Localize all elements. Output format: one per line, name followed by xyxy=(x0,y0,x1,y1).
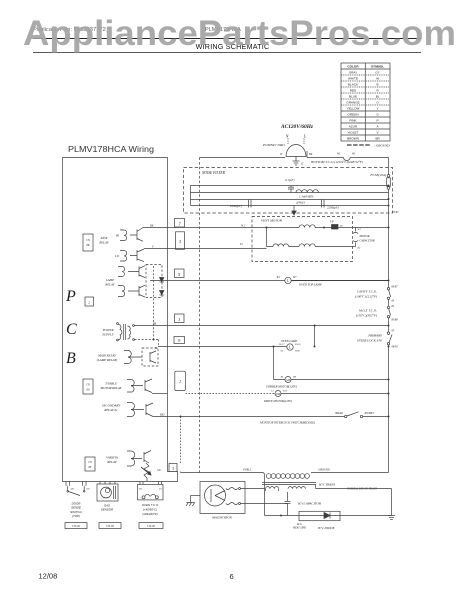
svg-text:MONITOR INTERLOCK SWITCH(MIDDL: MONITOR INTERLOCK SWITCH(MIDDLE) xyxy=(259,421,315,425)
svg-text:BK: BK xyxy=(150,225,154,228)
svg-text:G: G xyxy=(376,113,379,117)
svg-text:(TOP): (TOP) xyxy=(72,514,80,518)
svg-text:INTER LOCK S/W: INTER LOCK S/W xyxy=(356,338,382,342)
svg-text:8Y: 8Y xyxy=(89,466,92,469)
secondary relay 1 RY5 label xyxy=(102,404,121,413)
node dot power wire xyxy=(388,325,390,327)
relay coil varistor xyxy=(127,451,135,466)
svg-text:T.P: T.P xyxy=(330,221,334,224)
svg-text:L: L xyxy=(286,279,289,283)
svg-text:B: B xyxy=(377,83,379,87)
wire NF fourth xyxy=(191,205,389,207)
svg-text:YELLOW: YELLOW xyxy=(347,107,360,111)
svg-text:L: L xyxy=(303,134,307,139)
svg-text:W.1: W.1 xyxy=(241,225,246,228)
wire NF top xyxy=(191,185,389,187)
ground legend xyxy=(347,144,390,148)
MGT TCO S2 xyxy=(356,305,398,322)
svg-text:2200(pF): 2200(pF) xyxy=(327,206,339,210)
color symbol table xyxy=(341,63,390,141)
relay coil sec xyxy=(127,403,135,417)
connector box 9 xyxy=(174,337,185,344)
fuse F1 20A xyxy=(369,158,390,190)
svg-text:BROWN: BROWN xyxy=(347,137,359,141)
wire drop to oven lamp xyxy=(314,325,316,348)
svg-text:2(96)/1: 2(96)/1 xyxy=(296,200,306,204)
wire long dashed neutral drop xyxy=(199,158,201,473)
svg-text:25/17: 25/17 xyxy=(279,343,285,346)
svg-text:0.1(uF): 0.1(uF) xyxy=(285,178,294,182)
svg-text:W: W xyxy=(376,77,379,81)
svg-text:ASSY: ASSY xyxy=(100,236,109,240)
motor capacitor C4 xyxy=(353,228,375,250)
svg-text:POWER: POWER xyxy=(102,328,114,332)
power supply transformer T1 xyxy=(102,328,115,337)
wire dashed internal bus xyxy=(153,266,155,340)
wire lamp relay to box 5 xyxy=(150,280,285,282)
svg-text:PRIMARY: PRIMARY xyxy=(367,333,383,337)
svg-text:1: 1 xyxy=(179,379,181,384)
header publication text xyxy=(33,27,241,33)
connector CN 8Y xyxy=(85,457,95,471)
svg-text:6: 6 xyxy=(230,572,234,581)
stirrer motor M2 xyxy=(266,376,389,389)
transistor Q5 xyxy=(131,451,151,464)
svg-text:BR/AD: BR/AD xyxy=(335,412,343,415)
svg-text:84: 84 xyxy=(392,305,395,308)
svg-text:98/50: 98/50 xyxy=(392,345,399,348)
wire NF left bus xyxy=(190,186,192,206)
door sense switch S5 xyxy=(66,481,90,495)
vent motor winding lower xyxy=(240,228,356,247)
svg-text:COLOR: COLOR xyxy=(347,65,359,69)
header rule top xyxy=(33,38,421,40)
wire HV primary top xyxy=(311,472,389,474)
primary interlock switch S3 xyxy=(356,329,398,348)
svg-text:O: O xyxy=(376,101,379,105)
wire monitor vertical to CN3 xyxy=(180,416,182,473)
svg-text:MOTOR RELAY: MOTOR RELAY xyxy=(100,386,123,390)
wire HV bottom bus xyxy=(265,515,300,517)
svg-text:W1: W1 xyxy=(352,153,356,156)
relay coil ttm xyxy=(127,380,134,393)
svg-text:12/08: 12/08 xyxy=(39,572,58,581)
ground HV xyxy=(388,516,395,520)
wire main relay to box 9 xyxy=(158,346,287,348)
svg-text:W1: W1 xyxy=(277,276,281,279)
connector CN 6A xyxy=(83,379,93,394)
svg-text:BK2: BK2 xyxy=(160,414,165,417)
wire NF second xyxy=(191,192,389,194)
inductor L1 1.3uH xyxy=(296,190,318,199)
oven lamp LP2 xyxy=(279,339,301,353)
wire ttm output xyxy=(152,393,168,395)
svg-text:AZUR: AZUR xyxy=(349,125,358,129)
lamp relay switch block xyxy=(128,265,162,298)
svg-text:1: 1 xyxy=(178,317,180,322)
svg-text:12: 12 xyxy=(271,390,274,393)
wire power supply return dashed xyxy=(134,339,158,351)
svg-text:W1: W1 xyxy=(337,153,341,156)
svg-text:BR: BR xyxy=(375,137,380,141)
wire HI output xyxy=(143,225,267,228)
svg-text:M.G.T T.C.O.: M.G.T T.C.O. xyxy=(358,308,377,312)
assy relay RY1 label xyxy=(98,236,109,245)
svg-text:HI: HI xyxy=(115,234,120,238)
svg-text:2200(pF): 2200(pF) xyxy=(230,204,242,208)
connector CN-02 tco xyxy=(139,523,163,529)
svg-text:FUSE(20A): FUSE(20A) xyxy=(369,173,386,177)
svg-text:H.V. DIODE: H.V. DIODE xyxy=(317,526,335,530)
ground G below plug xyxy=(293,156,305,166)
svg-text:NOISE FILTER: NOISE FILTER xyxy=(201,171,226,175)
svg-text:95: 95 xyxy=(392,329,395,332)
svg-text:W99: W99 xyxy=(295,350,300,353)
svg-text:STIRRER MOTOR(120V): STIRRER MOTOR(120V) xyxy=(266,385,297,389)
wire power supply output xyxy=(134,323,388,326)
oven top lamp LP1 xyxy=(277,276,298,284)
wire LO output xyxy=(144,246,267,249)
svg-text:R: R xyxy=(376,89,379,93)
wire right chain lower xyxy=(388,345,390,473)
relay coil HI xyxy=(115,230,127,241)
wire monitor line from relay xyxy=(153,414,345,417)
vent motor M1 box xyxy=(252,217,353,262)
connector CN-02 door xyxy=(65,523,87,529)
magnetron V1 xyxy=(200,482,245,520)
svg-text:1.3uH MIN.: 1.3uH MIN. xyxy=(299,194,314,198)
svg-text:RELAY #1: RELAY #1 xyxy=(103,408,118,412)
wire line side to fuse chain with bottom TCO xyxy=(307,151,389,161)
power cord plug P1 xyxy=(286,145,306,157)
svg-text:BK: BK xyxy=(309,153,313,156)
svg-text:CN: CN xyxy=(88,461,92,464)
transistor Q3 xyxy=(131,379,152,393)
diode D2 xyxy=(160,291,164,296)
svg-text:A: A xyxy=(377,125,380,129)
svg-text:CAVITY T.C.O.: CAVITY T.C.O. xyxy=(357,289,377,293)
lamp relay RY2 label xyxy=(104,278,115,287)
svg-text:MAGNETRON: MAGNETRON xyxy=(211,516,233,520)
node dots lower chain xyxy=(388,346,390,418)
svg-text:CN: CN xyxy=(86,384,90,387)
svg-text:BOTTOM T.C.O (120/4°C)(248/32°: BOTTOM T.C.O (120/4°C)(248/32°F) xyxy=(311,160,364,164)
connector box 1 tall xyxy=(175,371,186,390)
svg-text:RELAY: RELAY xyxy=(104,283,115,287)
svg-text:CAPACITOR: CAPACITOR xyxy=(360,239,375,243)
HV diode D3 xyxy=(292,511,392,530)
wire right chain upper xyxy=(388,189,390,287)
svg-text:VARISTA: VARISTA xyxy=(106,456,118,460)
svg-text:BLUE: BLUE xyxy=(349,95,357,99)
svg-text:GROUND: GROUND xyxy=(318,469,329,472)
relay coil lamp hi xyxy=(118,267,125,277)
connector CN-05 xyxy=(99,523,121,529)
connector CN 8K xyxy=(83,234,93,251)
transistor Q4 xyxy=(131,403,153,417)
transistor Q1 xyxy=(130,228,143,242)
vent motor winding upper xyxy=(267,225,332,228)
svg-text:85/88: 85/88 xyxy=(392,318,399,321)
wire HV right leg xyxy=(316,485,392,516)
main relay contact block xyxy=(128,348,158,366)
relay coil main xyxy=(124,351,131,364)
connector box 5 xyxy=(175,269,185,278)
svg-text:NORMAL END IN TRANS: NORMAL END IN TRANS xyxy=(346,488,377,491)
svg-text:BR: BR xyxy=(293,376,297,379)
svg-text:POWER CORD: POWER CORD xyxy=(262,143,285,147)
monitor interlock switch S4 xyxy=(259,412,389,425)
svg-text:LO: LO xyxy=(114,254,120,258)
svg-text:R2: R2 xyxy=(339,225,344,228)
drive motor M3 xyxy=(186,390,389,404)
svg-text:(150°C)(302°F): (150°C)(302°F) xyxy=(356,313,377,317)
diode D1 xyxy=(160,278,164,283)
svg-text:65/67: 65/67 xyxy=(393,211,400,214)
door sense switch label xyxy=(70,502,82,519)
svg-text:VENT MOTOR: VENT MOTOR xyxy=(261,219,283,223)
svg-text:B: B xyxy=(66,350,76,367)
svg-text:94: 94 xyxy=(392,299,395,302)
oven TCO S6 xyxy=(138,481,164,500)
svg-text:2: 2 xyxy=(88,301,90,305)
svg-text:(LAMP RELAY): (LAMP RELAY) xyxy=(97,358,118,362)
wire NF third xyxy=(191,199,389,201)
svg-text:SECONDARY: SECONDARY xyxy=(102,404,121,408)
svg-text:SYMBOL: SYMBOL xyxy=(371,65,384,69)
svg-text:W1: W1 xyxy=(139,488,142,491)
wire neutral from plug to left drop xyxy=(200,157,286,159)
wire stirrer drop xyxy=(273,346,275,380)
svg-text:BL: BL xyxy=(281,376,285,379)
thermal protector TP xyxy=(323,221,389,230)
wire chain seg xyxy=(388,300,390,307)
relay coil LO xyxy=(114,251,127,262)
wire L lead xyxy=(303,139,305,145)
svg-text:GY: GY xyxy=(375,71,379,75)
svg-text:ORANGE: ORANGE xyxy=(346,101,359,105)
wire vent upper xyxy=(241,225,268,229)
svg-text:Y2: Y2 xyxy=(240,243,243,246)
connector box 7 xyxy=(175,219,185,228)
svg-text:CN-02: CN-02 xyxy=(72,524,81,528)
relay coil lamp lo xyxy=(118,286,125,297)
noise filter NF1 box xyxy=(184,168,393,214)
gas sensor label xyxy=(101,504,113,512)
svg-text:PLMV178HCA Wiring: PLMV178HCA Wiring xyxy=(68,144,154,154)
wire magnetron bottom to cap node xyxy=(241,503,288,505)
HV transformer T2 primary xyxy=(262,473,377,491)
svg-text:(+40/95°C): (+40/95°C) xyxy=(143,508,157,512)
main relay RY3 label xyxy=(97,354,118,363)
wire chain seg xyxy=(388,318,390,332)
svg-text:GRAY: GRAY xyxy=(349,71,358,75)
svg-text:G: G xyxy=(301,162,304,166)
svg-text:NO/BKT: NO/BKT xyxy=(364,412,375,415)
svg-text:OVEN TOP LAMP: OVEN TOP LAMP xyxy=(299,283,322,287)
svg-text:AppliancePartsPros.com: AppliancePartsPros.com xyxy=(23,13,456,53)
svg-text:OVEN T.C.O: OVEN T.C.O xyxy=(142,503,159,507)
svg-text:45/BL2: 45/BL2 xyxy=(243,469,252,472)
svg-text:DRIVE MOTOR(120V): DRIVE MOTOR(120V) xyxy=(263,399,292,403)
svg-text:85/81: 85/81 xyxy=(295,343,301,346)
gas sensor GS1 xyxy=(97,481,118,501)
varistor RV1 xyxy=(141,463,151,481)
svg-text:N: N xyxy=(285,134,289,139)
svg-text:VIOLET: VIOLET xyxy=(347,131,358,135)
svg-text:P: P xyxy=(377,119,379,123)
svg-text:BLACK: BLACK xyxy=(348,83,359,87)
svg-text:83/87: 83/87 xyxy=(392,285,399,288)
svg-text:D3: D3 xyxy=(86,488,91,491)
wire N lead xyxy=(287,139,289,145)
svg-text:CN: CN xyxy=(86,239,90,242)
wire 45/BL2 bus xyxy=(181,469,330,473)
svg-text:L: L xyxy=(288,346,291,350)
svg-text:H.V.CAPACITOR: H.V.CAPACITOR xyxy=(297,502,321,506)
connector CN2 xyxy=(85,297,94,306)
svg-text:CN-02: CN-02 xyxy=(147,524,156,528)
svg-text:W7: W7 xyxy=(293,276,297,279)
svg-text:R2: R2 xyxy=(357,247,362,250)
svg-text:DM: DM xyxy=(275,393,281,396)
varistor relay RY6 label xyxy=(106,456,118,465)
svg-text:V: V xyxy=(377,131,380,135)
svg-text:: GROUND: : GROUND xyxy=(374,144,390,148)
svg-text:W: W xyxy=(280,153,283,156)
ground magnetron chassis xyxy=(186,496,200,506)
svg-text:D4: D4 xyxy=(70,488,75,491)
transistor Q2 xyxy=(130,249,144,262)
svg-text:GREEN: GREEN xyxy=(347,113,358,117)
capacitor C2 2200pF xyxy=(230,200,251,209)
wire magnetron top to HV xyxy=(241,488,265,490)
svg-text:Y: Y xyxy=(377,107,379,111)
node dots right chain xyxy=(388,185,390,282)
capacitor 0.1uF xyxy=(285,178,294,193)
wire lamp to chain xyxy=(291,280,388,282)
turntable motor relay RY4 label xyxy=(100,382,123,391)
svg-text:WHITE: WHITE xyxy=(348,77,358,81)
svg-text:AC120V/60Hz: AC120V/60Hz xyxy=(280,124,314,130)
svg-text:8K: 8K xyxy=(86,244,89,247)
svg-text:T/TABLE: T/TABLE xyxy=(105,382,117,386)
svg-text:BL: BL xyxy=(376,95,380,99)
svg-text:CN-05: CN-05 xyxy=(106,524,115,528)
svg-text:SUPPLY: SUPPLY xyxy=(102,333,114,337)
svg-text:PINK: PINK xyxy=(349,119,357,123)
svg-text:RELAY: RELAY xyxy=(98,241,109,245)
svg-text:6A: 6A xyxy=(86,389,89,392)
svg-text:95: 95 xyxy=(281,350,284,353)
svg-text:(104/203°F): (104/203°F) xyxy=(142,512,157,516)
svg-text:W2: W2 xyxy=(358,228,362,231)
svg-text:GN: GN xyxy=(157,469,161,472)
svg-text:SENSOR: SENSOR xyxy=(101,508,113,512)
svg-text:C: C xyxy=(66,321,77,338)
wire arrow to vent motor xyxy=(292,206,296,216)
svg-text:3: 3 xyxy=(172,466,174,471)
svg-text:H.V. TRANS: H.V. TRANS xyxy=(318,483,336,487)
connector box 1 xyxy=(175,314,185,323)
svg-text:(100°C) (212°F): (100°C) (212°F) xyxy=(355,294,377,298)
svg-text:LAMP: LAMP xyxy=(105,278,114,282)
svg-text:MOTOR: MOTOR xyxy=(359,234,370,238)
svg-text:RELAY: RELAY xyxy=(106,460,117,464)
oven TCO label xyxy=(142,503,159,516)
svg-text:HEAT SINK: HEAT SINK xyxy=(292,527,306,530)
capacitor C3 2200pF xyxy=(296,200,339,210)
header rule bottom xyxy=(33,52,421,54)
svg-text:MAIN RELAY: MAIN RELAY xyxy=(97,354,117,358)
svg-text:R12: R12 xyxy=(282,390,288,393)
svg-text:RED: RED xyxy=(350,89,357,93)
HV capacitor C5 xyxy=(285,492,321,516)
svg-text:P: P xyxy=(65,288,76,305)
svg-text:Y: Y xyxy=(152,246,154,249)
cavity TCO S1 xyxy=(355,285,398,302)
connector box 3 xyxy=(176,232,185,250)
HV transformer secondary windings xyxy=(265,475,306,516)
connector box 3 bottom xyxy=(169,464,177,472)
svg-text:P3: P3 xyxy=(158,488,163,491)
